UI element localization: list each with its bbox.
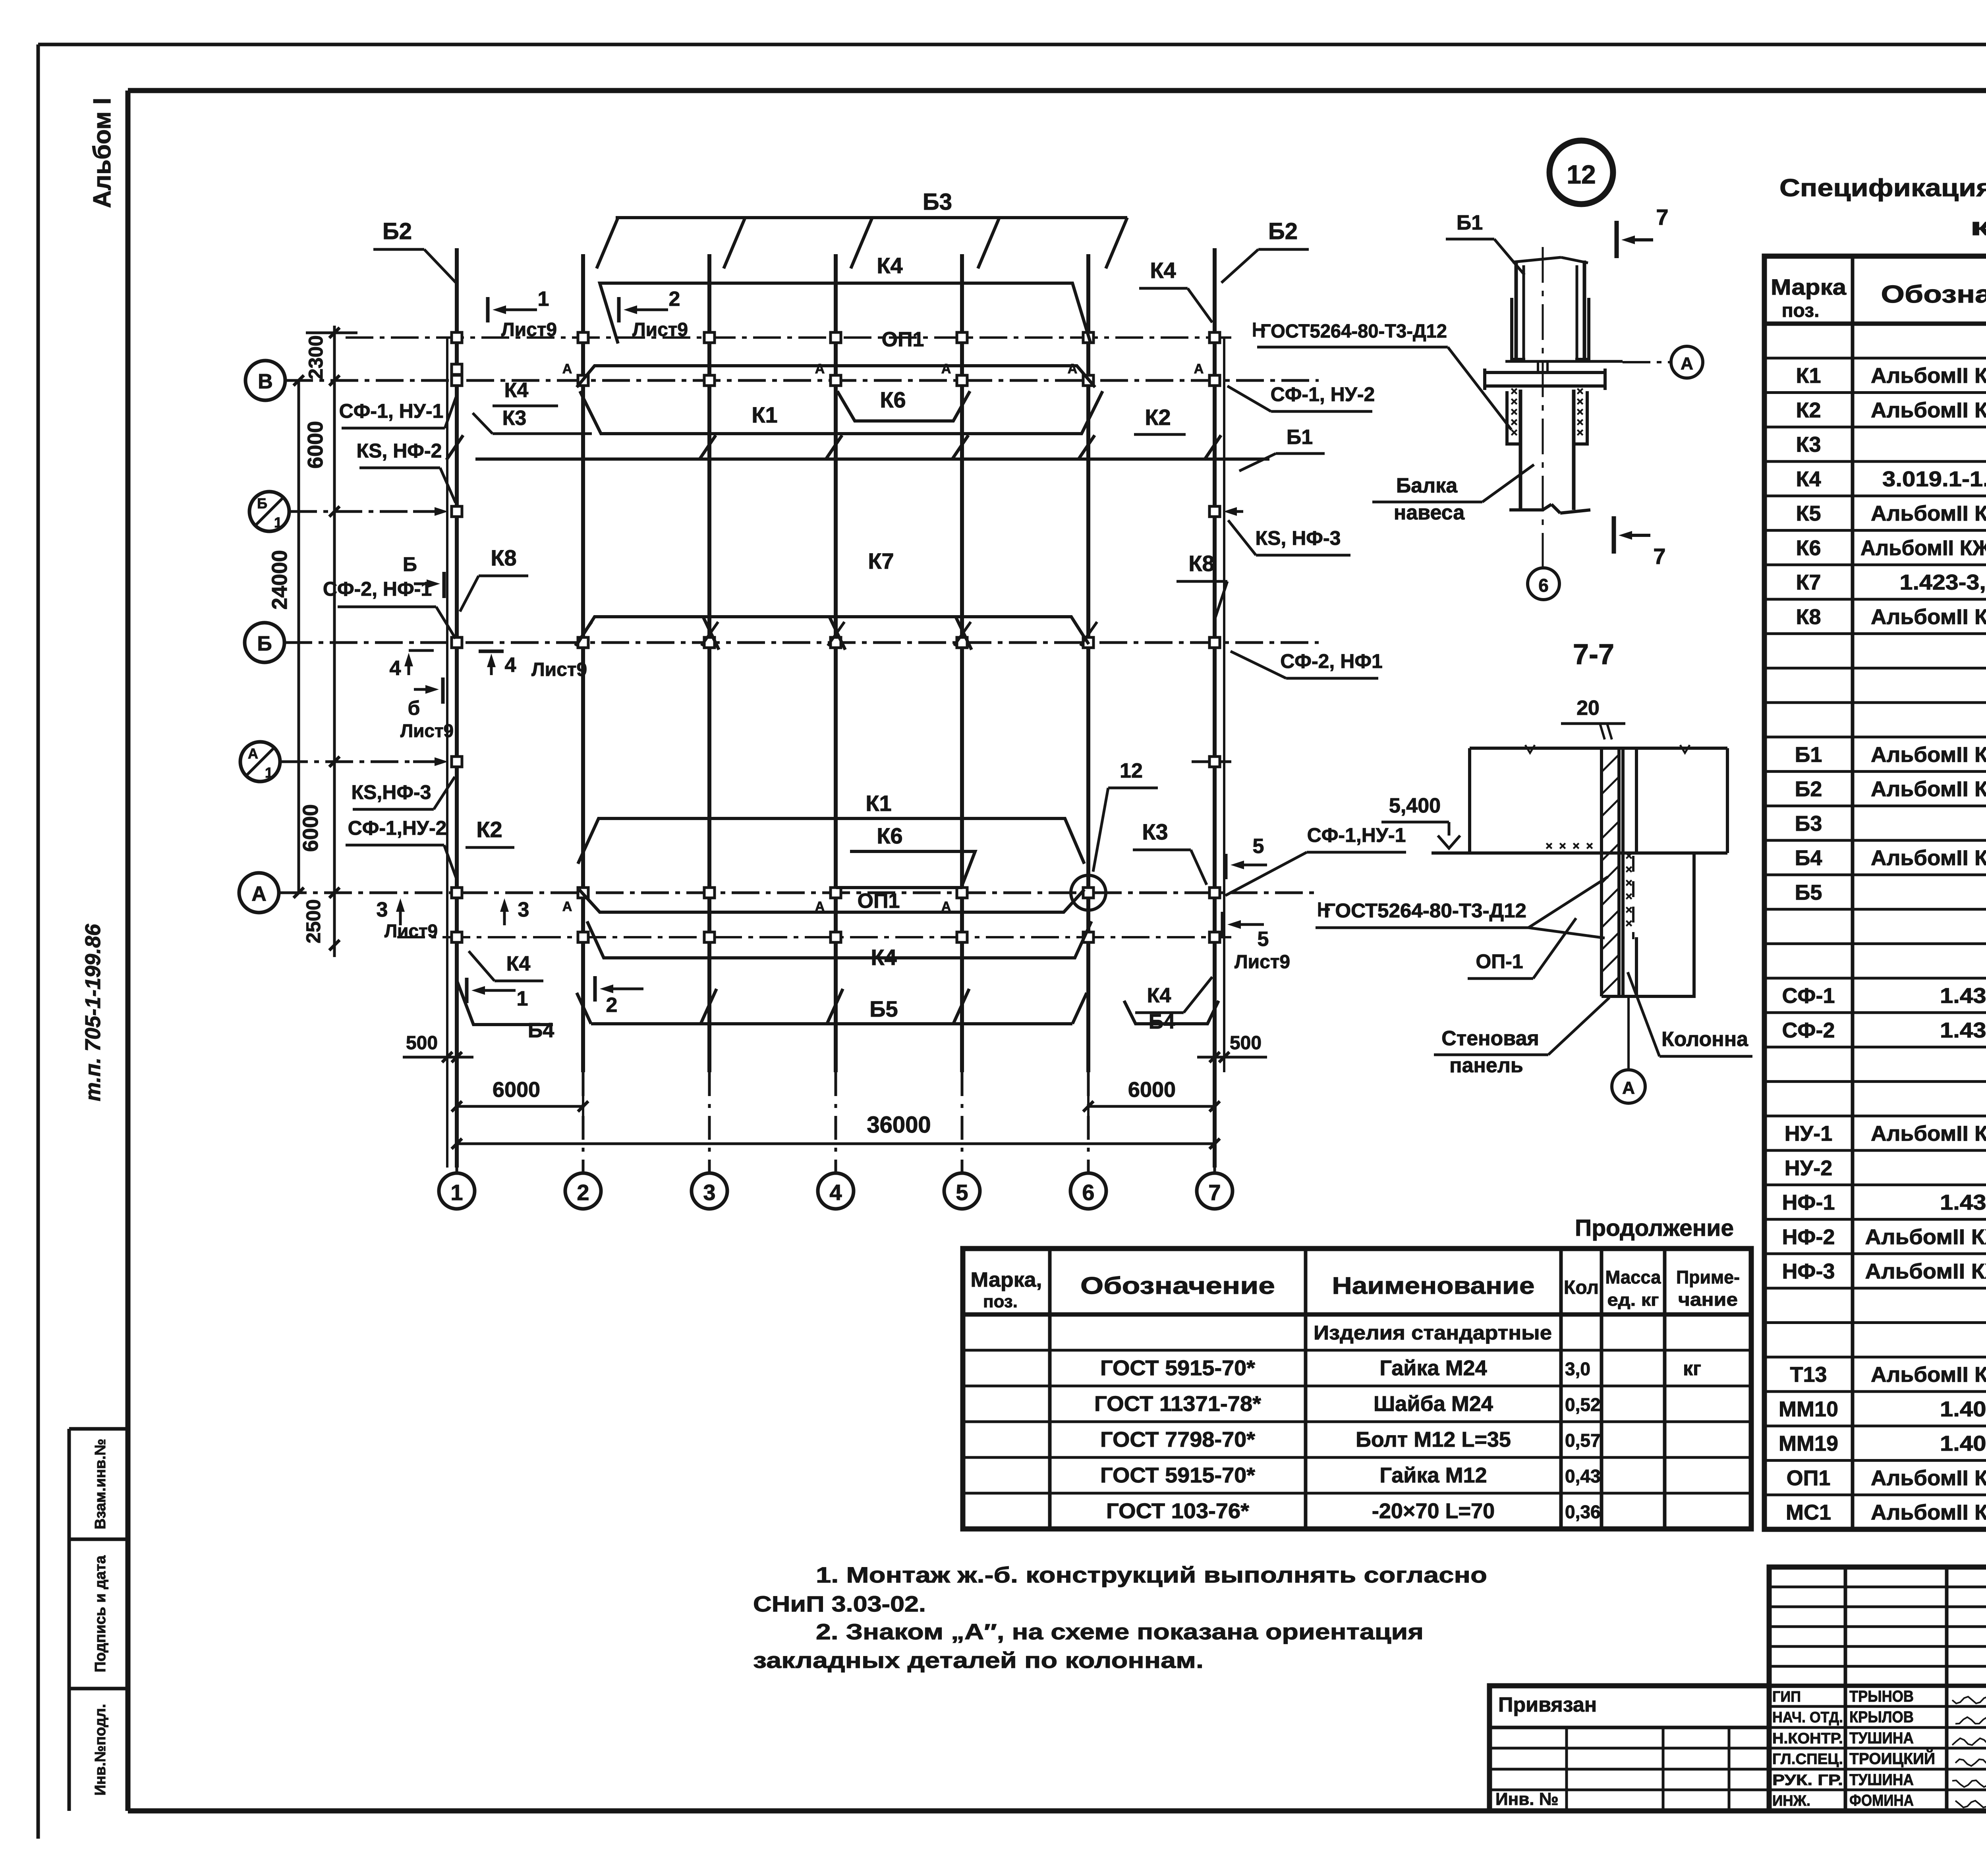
svg-text:колонн и балок: колонн и балок — [1970, 213, 1986, 241]
svg-text:0,52: 0,52 — [1565, 1394, 1601, 1415]
svg-text:Марка: Марка — [1771, 274, 1847, 299]
svg-text:НФ-2: НФ-2 — [1782, 1225, 1835, 1249]
axis bubble 7 — [1197, 1173, 1233, 1209]
svg-text:СФ-1,НУ-2: СФ-1,НУ-2 — [348, 817, 447, 839]
svg-text:АльбомII КЖ.И.01.00: АльбомII КЖ.И.01.00 — [1871, 364, 1986, 388]
svg-text:АльбомII КЖ.И. 21.00: АльбомII КЖ.И. 21.00 — [1865, 1260, 1986, 1283]
svg-text:А: А — [1681, 354, 1693, 373]
svg-text:7: 7 — [1656, 205, 1668, 230]
title block signature rows — [1769, 1705, 1986, 1708]
svg-text:навеса: навеса — [1394, 501, 1465, 524]
svg-text:Шайба М24: Шайба М24 — [1374, 1392, 1493, 1416]
beam К1 outline lower — [578, 818, 1084, 864]
svg-text:1: 1 — [517, 987, 528, 1010]
svg-text:Инв. №: Инв. № — [1495, 1789, 1559, 1809]
svg-text:6000: 6000 — [299, 804, 323, 852]
svg-text:СФ-1,НУ-1: СФ-1,НУ-1 — [1307, 824, 1406, 846]
svg-text:К1: К1 — [1796, 364, 1821, 388]
axis bubble 4 — [818, 1173, 854, 1209]
callout 1 Лист9 top — [486, 297, 490, 322]
svg-text:Б1: Б1 — [1795, 743, 1822, 766]
svg-text:Масса: Масса — [1605, 1267, 1661, 1287]
svg-text:ОП-1: ОП-1 — [1476, 950, 1523, 973]
svg-text:ИНЖ.: ИНЖ. — [1772, 1793, 1810, 1809]
node bubble 6 (detail 12) — [1528, 568, 1559, 600]
support plate line ОП1 upper — [577, 366, 1095, 387]
svg-text:Н.КОНТР.: Н.КОНТР. — [1772, 1730, 1843, 1747]
svg-text:Б5: Б5 — [869, 996, 898, 1021]
column line 4 — [834, 254, 838, 1072]
column bottom break (detail 12) — [1509, 508, 1543, 511]
axis bubble 6 — [1070, 1173, 1106, 1209]
svg-text:Б3: Б3 — [1795, 812, 1822, 836]
svg-text:Б: Б — [257, 495, 267, 511]
column line 1 — [455, 248, 459, 1168]
svg-text:×: × — [1573, 840, 1580, 853]
column squares row Б — [452, 637, 462, 648]
column line 3 — [707, 254, 711, 1072]
title block signature columns — [1844, 1567, 1847, 1811]
svg-text:А: А — [251, 882, 267, 905]
column shaft (detail 12) — [1519, 390, 1522, 510]
title block signatures squiggles — [1952, 1697, 1986, 1703]
svg-text:×: × — [1625, 876, 1632, 890]
svg-text:Б4: Б4 — [1149, 1010, 1175, 1033]
svg-text:Б: Б — [403, 553, 417, 575]
svg-text:ГОСТ5264-80-Т3-Д12: ГОСТ5264-80-Т3-Д12 — [1324, 899, 1526, 922]
svg-text:ед. кг: ед. кг — [1607, 1290, 1659, 1310]
svg-text:НУ-1: НУ-1 — [1785, 1122, 1833, 1146]
svg-text:ГОСТ 103-76*: ГОСТ 103-76* — [1106, 1499, 1249, 1523]
svg-text:2500: 2500 — [302, 899, 325, 943]
svg-text:Колонна: Колонна — [1661, 1028, 1748, 1051]
svg-text:1.400-7: 1.400-7 — [1940, 1432, 1986, 1455]
beam К6 outline lower — [836, 851, 975, 888]
svg-text:3: 3 — [703, 1180, 715, 1205]
beam Б3 diagonals — [597, 218, 618, 268]
section flag 5 right upper — [1224, 854, 1228, 879]
detail circle at node 12 — [1071, 875, 1106, 910]
svg-text:Б1: Б1 — [1287, 426, 1313, 449]
svg-text:НФ-1: НФ-1 — [1782, 1191, 1835, 1214]
svg-text:КS,НФ-3: КS,НФ-3 — [351, 781, 431, 803]
svg-text:закладных деталей по колонн: закладных деталей по колоннам. — [753, 1648, 1204, 1673]
svg-text:500: 500 — [406, 1033, 438, 1054]
svg-text:АльбомII КЖ.И.06.00: АльбомII КЖ.И.06.00 — [1871, 743, 1986, 766]
column line 2 — [581, 254, 585, 1072]
section flag 1 bottom — [465, 978, 469, 1003]
svg-text:РУК. ГР.: РУК. ГР. — [1772, 1772, 1843, 1789]
svg-text:Спецификация элементов к сх: Спецификация элементов к схеме расположе… — [1779, 174, 1986, 202]
svg-text:ГОСТ 11371-78*: ГОСТ 11371-78* — [1094, 1392, 1261, 1416]
svg-text:Подпись и дата: Подпись и дата — [92, 1555, 109, 1672]
svg-text:×: × — [1625, 903, 1632, 917]
svg-text:ММ19: ММ19 — [1779, 1432, 1838, 1455]
svg-text:4: 4 — [390, 657, 401, 680]
specification table grid — [1764, 256, 1986, 1529]
svg-text:АльбомII КЖ.И.04.00: АльбомII КЖ.И.04.00 — [1871, 605, 1986, 629]
dim 500 left — [446, 1029, 448, 1072]
svg-text:6: 6 — [1538, 575, 1549, 596]
svg-text:ОП1: ОП1 — [858, 890, 900, 913]
fachwerk squares — [452, 506, 462, 517]
svg-text:×: × — [1546, 840, 1553, 853]
svg-text:Б5: Б5 — [1795, 880, 1822, 904]
svg-text:панель: панель — [1449, 1054, 1523, 1077]
svg-text:К4: К4 — [877, 253, 902, 278]
svg-text:1. Монтаж ж.-б. конструкций: 1. Монтаж ж.-б. конструкций выполнять со… — [816, 1562, 1487, 1587]
svg-text:Б4: Б4 — [1795, 846, 1822, 870]
svg-text:НАЧ. ОТД.: НАЧ. ОТД. — [1772, 1709, 1843, 1726]
svg-text:КРЫЛОВ: КРЫЛОВ — [1849, 1708, 1914, 1726]
axis bubble 1 — [439, 1173, 475, 1209]
svg-text:3: 3 — [377, 898, 388, 921]
svg-text:К4: К4 — [1147, 984, 1171, 1007]
svg-text:КS, НФ-3: КS, НФ-3 — [1256, 527, 1341, 549]
section flag 2 bottom — [593, 976, 597, 1002]
beam К4 line lower — [587, 921, 1092, 958]
svg-text:1: 1 — [274, 514, 282, 531]
title block outer — [1769, 1567, 1986, 1811]
svg-text:×: × — [1559, 840, 1566, 853]
svg-text:Болт М12 L=35: Болт М12 L=35 — [1356, 1428, 1511, 1451]
column squares upper edge — [452, 332, 462, 343]
svg-text:К4: К4 — [1150, 258, 1176, 283]
svg-text:5: 5 — [1258, 928, 1269, 951]
dim 500 right — [1223, 1029, 1225, 1072]
svg-text:6000: 6000 — [1128, 1078, 1176, 1102]
svg-text:ГОСТ 5915-70*: ГОСТ 5915-70* — [1100, 1356, 1255, 1380]
svg-text:К3: К3 — [1142, 819, 1168, 844]
svg-text:1.400-7: 1.400-7 — [1940, 1397, 1986, 1421]
section mark 7 bottom (detail 12) — [1612, 516, 1616, 554]
svg-text:б: б — [408, 697, 420, 719]
svg-text:3.019.1-1.1-КО-06: 3.019.1-1.1-КО-06 — [1882, 467, 1986, 491]
detail 12 centerline — [1542, 247, 1544, 567]
svg-text:0,36: 0,36 — [1565, 1502, 1601, 1522]
svg-text:0,43: 0,43 — [1565, 1466, 1601, 1486]
svg-text:Стеновая: Стеновая — [1441, 1027, 1539, 1050]
beam Б1 long line — [475, 457, 1269, 461]
svg-text:К4: К4 — [506, 952, 531, 975]
svg-text:т.п. 705-1-199.86: т.п. 705-1-199.86 — [81, 924, 105, 1102]
axis line В — [285, 379, 1319, 382]
svg-text:АльбомII КЖ.И.08.00: АльбомII КЖ.И.08.00 — [1871, 846, 1986, 870]
svg-text:СФ-1, НУ-2: СФ-1, НУ-2 — [1271, 383, 1375, 405]
section flag 5 bottom right — [1221, 912, 1225, 937]
bottom dim line 36000 — [457, 1143, 1215, 1145]
svg-text:Гайка М24: Гайка М24 — [1379, 1356, 1487, 1380]
svg-text:2. Знаком „А″, на схеме пока: 2. Знаком „А″, на схеме показана ориента… — [816, 1619, 1424, 1644]
svg-text:А: А — [1622, 1078, 1635, 1098]
svg-text:ТРЫНОВ: ТРЫНОВ — [1849, 1688, 1914, 1705]
I-beam flange (detail 12) — [1485, 371, 1605, 374]
svg-text:К3: К3 — [502, 407, 527, 430]
svg-text:К1: К1 — [865, 791, 891, 816]
svg-text:АльбомII КЖ.И.19.00: АльбомII КЖ.И.19.00 — [1871, 1363, 1986, 1387]
svg-text:ФОМИНА: ФОМИНА — [1849, 1792, 1914, 1809]
svg-text:2: 2 — [606, 994, 618, 1017]
svg-text:7: 7 — [1653, 544, 1665, 569]
axis Б column diagonals — [575, 622, 592, 646]
svg-text:ГОСТ 7798-70*: ГОСТ 7798-70* — [1100, 1428, 1255, 1451]
svg-text:Лист9: Лист9 — [384, 921, 438, 941]
svg-text:ММ10: ММ10 — [1779, 1397, 1838, 1421]
svg-text:Б: Б — [257, 632, 272, 655]
svg-text:×: × — [1625, 917, 1632, 930]
wall panel strip (section 7-7) — [1600, 748, 1603, 996]
detail bubble 12 — [1549, 141, 1613, 204]
svg-text:5: 5 — [1253, 835, 1264, 858]
svg-text:АльбомII КЖ.И. 20.00: АльбомII КЖ.И. 20.00 — [1865, 1225, 1986, 1249]
svg-text:×: × — [1625, 863, 1632, 876]
svg-text:ГОСТ5264-80-Т3-Д12: ГОСТ5264-80-Т3-Д12 — [1260, 321, 1447, 342]
seat plates upper (detail 12) — [1512, 298, 1525, 359]
svg-text:Изделия стандартные: Изделия стандартные — [1314, 1322, 1552, 1344]
svg-text:НФ-3: НФ-3 — [1782, 1260, 1835, 1283]
svg-text:6000: 6000 — [303, 421, 327, 469]
callout 4 Лист9 right of Б axis — [479, 650, 504, 653]
axis line Б/1 — [289, 510, 429, 513]
svg-text:5,400: 5,400 — [1389, 794, 1441, 817]
column squares row В — [452, 375, 462, 386]
column squares row А — [452, 888, 462, 898]
svg-text:АльбомII КЖ.И.07.00: АльбомII КЖ.И.07.00 — [1871, 777, 1986, 801]
svg-text:ГЛ.СПЕЦ.: ГЛ.СПЕЦ. — [1772, 1751, 1843, 1768]
svg-text:К7: К7 — [868, 548, 894, 573]
axis bubble А/1 — [240, 742, 280, 782]
svg-text:0,57: 0,57 — [1565, 1430, 1601, 1451]
axis line Б — [284, 641, 1319, 644]
svg-text:СФ-1: СФ-1 — [1782, 984, 1835, 1008]
svg-text:7-7: 7-7 — [1573, 639, 1614, 670]
svg-text:Лист9: Лист9 — [400, 720, 454, 741]
svg-text:А: А — [562, 361, 572, 376]
svg-text:А: А — [941, 361, 951, 376]
upper edge dash line — [346, 336, 1231, 339]
svg-text:1.439-2: 1.439-2 — [1940, 1018, 1986, 1042]
svg-text:ГИП: ГИП — [1772, 1689, 1801, 1705]
bottom beam line (section 7-7) — [1432, 851, 1727, 855]
svg-text:5: 5 — [956, 1180, 968, 1205]
svg-text:поз.: поз. — [1782, 300, 1820, 321]
svg-text:Т13: Т13 — [1790, 1363, 1827, 1387]
support plate line ОП1 lower — [579, 890, 1084, 912]
svg-text:К5: К5 — [1796, 502, 1821, 525]
svg-text:20: 20 — [1576, 697, 1600, 720]
svg-text:К2: К2 — [476, 817, 502, 842]
beam Б4 right outline — [1124, 1001, 1219, 1024]
svg-text:ОП1: ОП1 — [882, 328, 924, 351]
axis bubble А — [239, 873, 279, 913]
seat plates lower (detail 12) — [1507, 391, 1520, 444]
margin stamp boxes Взам.инв./Подпись и дата/Инв.№подл. — [69, 1427, 128, 1431]
axis bubble А (section 7-7) — [1627, 996, 1630, 1070]
svg-text:×: × — [1511, 426, 1518, 439]
svg-text:К6: К6 — [1796, 536, 1821, 560]
svg-text:1.439-2: 1.439-2 — [1940, 1191, 1986, 1214]
svg-text:АльбомII КЖ.И.23.00: АльбомII КЖ.И.23.00 — [1871, 1501, 1986, 1525]
svg-text:КS, НФ-2: КS, НФ-2 — [357, 440, 442, 462]
svg-text:СФ-2, НФ1: СФ-2, НФ1 — [1280, 650, 1383, 672]
axis bubble Б — [245, 623, 284, 662]
svg-text:поз.: поз. — [983, 1292, 1018, 1311]
continuation table grid — [963, 1249, 1751, 1529]
svg-text:7: 7 — [1208, 1180, 1221, 1205]
break marks (section 7-7) — [1525, 745, 1535, 753]
svg-text:Б2: Б2 — [1268, 218, 1298, 244]
svg-text:К3: К3 — [1796, 433, 1821, 457]
svg-text:А: А — [815, 361, 825, 376]
svg-text:Балка: Балка — [1396, 474, 1458, 497]
svg-text:чание: чание — [1678, 1289, 1738, 1310]
axis marker А (detail 12) — [1623, 361, 1670, 363]
svg-text:24000: 24000 — [268, 550, 292, 610]
beam К1 outline upper — [580, 391, 1103, 434]
svg-text:×: × — [1625, 849, 1632, 863]
svg-text:АльбомII КЖ.И.01.00-01: АльбомII КЖ.И.01.00-01 — [1860, 536, 1986, 560]
svg-text:ТУШИНА: ТУШИНА — [1849, 1729, 1914, 1747]
svg-text:1: 1 — [265, 764, 273, 781]
beam Б5 column diagonals — [701, 989, 717, 1024]
svg-text:Обозначение: Обозначение — [1080, 1272, 1275, 1299]
svg-text:12: 12 — [1120, 759, 1143, 782]
svg-text:Б3: Б3 — [923, 189, 952, 215]
column strip (section 7-7) — [1621, 748, 1625, 996]
svg-text:Б4: Б4 — [528, 1019, 554, 1042]
svg-text:6000: 6000 — [493, 1078, 540, 1102]
column right outline (section 7-7) — [1692, 855, 1696, 996]
svg-text:К8: К8 — [491, 545, 516, 570]
column dashed edge (section 7-7) — [1632, 856, 1634, 939]
svg-text:2: 2 — [669, 288, 680, 311]
beam Б1 column diagonals — [699, 435, 716, 460]
svg-text:АльбомII КЖ.И.18.00: АльбомII КЖ.И.18.00 — [1871, 1122, 1986, 1146]
svg-text:1.439-2: 1.439-2 — [1940, 984, 1986, 1008]
svg-text:А: А — [1194, 361, 1204, 376]
axis bubble Б/1 — [249, 492, 289, 531]
svg-text:Альбом I: Альбом I — [89, 98, 116, 208]
svg-text:36000: 36000 — [867, 1112, 931, 1138]
svg-text:СФ-2, НФ-1: СФ-2, НФ-1 — [323, 578, 432, 600]
svg-text:3,0: 3,0 — [1565, 1359, 1590, 1379]
svg-text:Продолжение: Продолжение — [1575, 1215, 1734, 1241]
section flag б lower — [414, 688, 425, 691]
svg-text:К2: К2 — [1145, 405, 1171, 430]
beam К7 outline — [577, 617, 1089, 644]
svg-text:В: В — [258, 370, 273, 393]
svg-text:Наименование: Наименование — [1332, 1272, 1535, 1299]
svg-text:СФ-2: СФ-2 — [1782, 1018, 1835, 1042]
svg-text:3: 3 — [518, 898, 529, 921]
svg-text:ОП1: ОП1 — [1787, 1466, 1831, 1490]
beam Б1 end (detail 12) — [1515, 261, 1518, 361]
beam Б5 end slopes — [577, 993, 591, 1024]
svg-text:Лист9: Лист9 — [531, 659, 587, 680]
svg-text:-20×70 L=70: -20×70 L=70 — [1372, 1499, 1495, 1523]
svg-text:6: 6 — [1082, 1180, 1094, 1205]
column line 5 — [960, 254, 964, 1072]
svg-text:Б2: Б2 — [1795, 777, 1822, 801]
bottom dim line 6000 right — [1088, 1105, 1215, 1108]
svg-text:К1: К1 — [752, 402, 777, 427]
svg-text:1: 1 — [538, 288, 549, 311]
beam К6 outline upper — [837, 391, 970, 421]
svg-text:К6: К6 — [877, 823, 902, 848]
svg-text:Привязан: Привязан — [1498, 1693, 1597, 1716]
axis line А/1 — [280, 760, 429, 763]
callout 3 arrow right — [503, 912, 506, 925]
svg-text:А: А — [562, 899, 572, 914]
svg-text:Лист9: Лист9 — [1234, 952, 1290, 973]
svg-text:АльбомII КЖ.И.02.00: АльбомII КЖ.И.02.00 — [1871, 398, 1986, 422]
inner drawing frame — [128, 88, 1986, 93]
svg-text:Б1: Б1 — [1457, 211, 1483, 234]
axis bubble 5 — [944, 1173, 980, 1209]
section mark 7 top (detail 12) — [1615, 221, 1619, 258]
svg-text:К6: К6 — [880, 387, 906, 412]
svg-text:К4: К4 — [1796, 467, 1821, 491]
svg-text:СФ-1, НУ-1: СФ-1, НУ-1 — [339, 400, 444, 422]
svg-text:×: × — [1586, 840, 1593, 853]
overall dim line 24000 — [298, 380, 300, 893]
svg-text:4: 4 — [505, 654, 516, 677]
svg-text:ТРОИЦКИЙ: ТРОИЦКИЙ — [1849, 1749, 1935, 1768]
svg-text:×: × — [1576, 426, 1584, 439]
svg-text:Гайка М12: Гайка М12 — [1379, 1463, 1487, 1487]
svg-text:×: × — [1625, 890, 1632, 903]
svg-text:К8: К8 — [1796, 605, 1821, 629]
svg-text:Б2: Б2 — [383, 218, 412, 244]
svg-text:Кол: Кол — [1564, 1277, 1599, 1298]
svg-text:12: 12 — [1567, 160, 1596, 189]
svg-text:К7: К7 — [1796, 571, 1821, 594]
svg-text:К8: К8 — [1188, 551, 1214, 576]
svg-text:НУ-2: НУ-2 — [1785, 1156, 1833, 1180]
callout 3 Лист9 left — [399, 912, 402, 925]
svg-text:А: А — [1068, 361, 1078, 376]
svg-text:СНиП 3.03-02.: СНиП 3.03-02. — [753, 1591, 926, 1616]
svg-text:ГОСТ 5915-70*: ГОСТ 5915-70* — [1100, 1463, 1255, 1487]
svg-text:2300: 2300 — [305, 335, 327, 379]
svg-text:2: 2 — [577, 1180, 589, 1205]
svg-text:МС1: МС1 — [1786, 1501, 1831, 1525]
svg-text:Лист9: Лист9 — [501, 319, 557, 340]
top beam line (section 7-7) — [1470, 747, 1727, 750]
svg-text:А: А — [248, 745, 258, 762]
callout 2 Лист9 top — [617, 297, 621, 322]
svg-text:К2: К2 — [1796, 398, 1821, 422]
lower edge dash line — [397, 936, 1231, 938]
column squares lower edge — [452, 932, 462, 942]
beam К4 outline upper — [600, 283, 1091, 344]
svg-text:К4: К4 — [871, 945, 896, 970]
axis line А — [279, 892, 1319, 894]
svg-text:1.423-3, вып.1: 1.423-3, вып.1 — [1900, 571, 1986, 594]
svg-text:Обозначение: Обозначение — [1881, 281, 1986, 308]
axis bubble 2 — [565, 1173, 601, 1209]
svg-text:АльбомII КЖ.И.05.00: АльбомII КЖ.И.05.00 — [1871, 502, 1986, 525]
column line 6 — [1086, 254, 1090, 1072]
left dimension line vertical — [333, 326, 336, 957]
svg-text:кг: кг — [1683, 1357, 1701, 1380]
svg-text:1: 1 — [450, 1180, 463, 1205]
svg-text:Марка,: Марка, — [971, 1268, 1042, 1291]
svg-text:К4: К4 — [504, 379, 529, 402]
svg-text:АльбомII КЖ.И.22.00: АльбомII КЖ.И.22.00 — [1871, 1466, 1986, 1490]
axis bubble В — [245, 361, 285, 400]
svg-text:Взам.инв.№: Взам.инв.№ — [92, 1439, 109, 1529]
